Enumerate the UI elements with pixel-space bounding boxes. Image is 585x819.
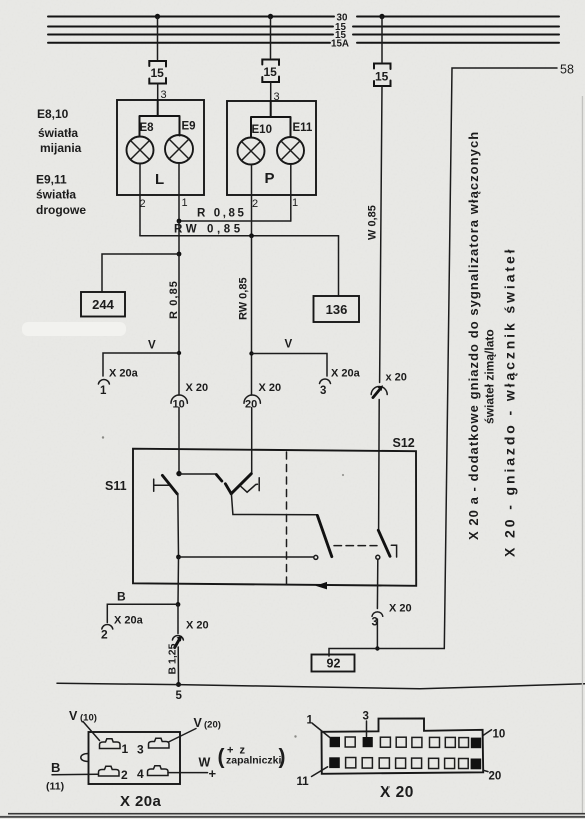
svg-text:2: 2 (121, 768, 128, 782)
headlamp unit box P (227, 101, 316, 195)
X20a terminal pin 4 (148, 766, 169, 776)
connector X20a pin 3 arc (320, 379, 331, 397)
svg-text:V: V (148, 340, 156, 352)
svg-text:E9: E9 (182, 121, 196, 133)
bus line 15A (48, 38, 559, 49)
wire pin3 down to junction (376, 619, 378, 649)
svg-text:RW 0,85: RW 0,85 (174, 224, 244, 236)
svg-text:244: 244 (92, 297, 114, 312)
S12 hook contact (391, 545, 396, 557)
wire RW down to connector X20 (251, 236, 253, 395)
bus line 15 (first) (48, 22, 559, 33)
svg-text:mijania: mijania (40, 141, 82, 155)
pencil speck (342, 474, 344, 476)
svg-text:1: 1 (292, 197, 298, 209)
svg-text:X 20: X 20 (380, 784, 414, 801)
X20 socket 12 (346, 758, 356, 768)
wire to S11 second lever (179, 473, 216, 475)
svg-text:2: 2 (252, 198, 258, 210)
wire B down from junction (177, 557, 180, 604)
svg-text:W 0,85: W 0,85 (367, 205, 379, 240)
svg-text:X 20: X 20 (186, 382, 209, 394)
svg-text:B: B (117, 590, 126, 604)
wire R 0,85 horizontal to E11 pin1 (179, 220, 291, 222)
X20 socket 18 (445, 758, 455, 768)
svg-text:X 20: X 20 (186, 620, 209, 632)
X20 socket 7 (430, 737, 440, 747)
X20 socket 10 (filled) (471, 738, 481, 749)
X20 socket 5 (396, 737, 406, 747)
X20 socket 16 (412, 758, 422, 768)
connector X20a pin 1 arc (98, 379, 109, 397)
wire: lamp E10 pin2 down (251, 165, 253, 236)
junction R wire (177, 219, 182, 224)
mechanical link dashed (334, 545, 377, 547)
X20 pin label 11 (297, 767, 328, 788)
wire branch V to X20a pin3 (252, 354, 328, 377)
svg-text:V: V (285, 339, 293, 351)
wire junction to terminal 58 (377, 648, 444, 650)
label V(20) (169, 716, 221, 742)
svg-text:S12: S12 (393, 436, 415, 450)
wire W resumes to switch S12 (378, 400, 381, 532)
connector drawing X20 body (322, 718, 484, 773)
S11 hook contact (241, 478, 259, 492)
wire branch to X20a pin2 (107, 604, 178, 622)
switch S12 lever (left) (317, 516, 331, 557)
svg-text:V: V (69, 709, 78, 723)
X20 pin label 10 (483, 729, 505, 741)
svg-text:R 0,85: R 0,85 (197, 208, 246, 220)
wire junction to box 92 (329, 649, 377, 657)
svg-text:11: 11 (297, 776, 310, 788)
X20 socket 4 (380, 737, 390, 747)
svg-text:X 20: X 20 (259, 382, 282, 394)
S12 left contact (open circle) (314, 555, 318, 559)
X20 socket 11 (filled) (329, 757, 340, 768)
svg-text:92: 92 (327, 657, 341, 671)
svg-text:20: 20 (489, 771, 502, 783)
connector X20 arc on wire W (371, 385, 387, 397)
wire branch to box 244 (102, 254, 179, 292)
svg-text:E9,11: E9,11 (36, 173, 67, 187)
svg-text:X 20a: X 20a (120, 793, 161, 810)
svg-text:10: 10 (493, 729, 506, 741)
svg-text:15: 15 (151, 66, 165, 80)
wire R from connector X20 into box (178, 408, 180, 474)
svg-text:58: 58 (560, 63, 574, 77)
fuse F1 15A (149, 61, 166, 84)
S11 left fixed contact (154, 479, 169, 491)
switch unit box S11/S12 (133, 449, 416, 586)
S12 right contact (open circle) (376, 555, 380, 559)
svg-text:E11: E11 (293, 122, 313, 134)
internal feed bracket box P (251, 101, 291, 138)
bus line 30 (48, 12, 559, 23)
svg-text:1: 1 (307, 715, 314, 727)
svg-text:15A: 15A (331, 38, 349, 49)
wire W from fuse F3 down (380, 86, 382, 383)
svg-text:3: 3 (137, 743, 144, 757)
svg-text:S11: S11 (105, 479, 127, 493)
svg-text:136: 136 (326, 302, 348, 317)
junction B branch (176, 602, 181, 607)
lamp E8 (127, 122, 155, 164)
junction box 92 branch (375, 646, 379, 650)
bottom line terminal 5 (57, 683, 585, 689)
wire RW from connector X20 into box (251, 408, 253, 474)
svg-text:2: 2 (101, 628, 108, 642)
svg-text:E8: E8 (140, 122, 155, 134)
svg-text:E8,10: E8,10 (37, 107, 69, 121)
svg-text:3: 3 (363, 711, 369, 723)
wire S11 output (231, 494, 317, 515)
svg-text:15: 15 (375, 70, 389, 84)
switch S11 lever (right, dashed) (216, 475, 231, 494)
svg-text:+: + (209, 766, 217, 781)
wire R: lamp E9 pin1 down (178, 163, 180, 221)
svg-text:): ) (279, 746, 286, 769)
svg-text:1: 1 (182, 197, 188, 209)
pencil speck (294, 735, 296, 737)
X20 socket 2 (345, 737, 355, 747)
svg-text:B: B (51, 760, 60, 775)
svg-text:(11): (11) (46, 781, 64, 793)
box 244 (81, 292, 125, 317)
svg-text:X 20a: X 20a (331, 368, 361, 380)
svg-text:(20): (20) (204, 720, 221, 731)
connector drawing X20a body (89, 732, 181, 784)
X20 socket 13 (362, 758, 372, 768)
junction on bus 30 for fuse F3 (379, 14, 384, 19)
fuse F3 15A (374, 64, 391, 87)
wire bus30 to fuse F3 (381, 17, 383, 63)
svg-text:B 1,25: B 1,25 (167, 643, 179, 674)
X20 socket 19 (459, 759, 469, 769)
fuse F2 15A (262, 60, 279, 83)
wire RW: lamp E8 pin2 down (139, 164, 141, 236)
wire B to bottom line (177, 647, 179, 684)
wire branch V to X20a pin1 (103, 353, 179, 376)
svg-text:X 20 a - dodatkowe gniazdo d: X 20 a - dodatkowe gniazdo do sygnalizat… (466, 131, 481, 540)
label W + z zapalniczki (168, 745, 286, 782)
svg-text:15: 15 (264, 65, 278, 79)
scan fold line right (582, 96, 583, 813)
svg-text:światła: światła (36, 188, 76, 202)
left caption E8,10 swiatla mijania (37, 107, 82, 155)
svg-text:świateł zimą/lato: świateł zimą/lato (483, 329, 497, 424)
svg-text:zapalniczki: zapalniczki (226, 755, 282, 767)
wire S12 output down (376, 559, 378, 608)
label B (11) (46, 760, 98, 793)
X20 socket 20 (filled) (471, 759, 482, 770)
wire bus30 to fuse F1 (157, 17, 159, 60)
svg-text:X 20a: X 20a (109, 368, 139, 380)
svg-text:światła: światła (38, 126, 78, 140)
wire R down to connector X20 (178, 254, 180, 395)
terminal 58 wire (444, 63, 574, 649)
svg-text:RW 0,85: RW 0,85 (238, 277, 250, 320)
svg-text:drogowe: drogowe (36, 203, 86, 217)
connector X20 pin 20 arc (244, 395, 260, 411)
svg-text:4: 4 (137, 767, 144, 781)
junction S11 input (176, 471, 181, 476)
junction B wire (176, 555, 181, 560)
switch S12 lever (right) (378, 530, 390, 556)
wire bus30 to fuse F2 (270, 17, 272, 59)
scan edge line lower (0, 816, 585, 818)
pencil speck (388, 786, 390, 788)
junction on bus 30 for fuse F1 (155, 14, 160, 19)
wire fuse F2 to lamp box P pin 3 (270, 82, 272, 101)
junction 244 branch (177, 252, 182, 257)
X20 socket 1 (filled) (330, 737, 340, 747)
svg-text:E10: E10 (252, 124, 272, 136)
internal feed bracket box L (140, 100, 180, 137)
junction on bus 30 for fuse F2 (268, 14, 273, 19)
headlamp unit box L (117, 100, 204, 195)
wire R down to junction 244 branch (178, 221, 180, 254)
svg-text:X 20 - gniazdo - włączni: X 20 - gniazdo - włącznik świateł (502, 247, 518, 557)
X20 socket 14 (379, 758, 389, 768)
X20 pin label 20 (484, 770, 502, 782)
junction RW wire at E10 branch (249, 233, 254, 238)
svg-text:1: 1 (122, 742, 129, 756)
X20 pin label 1 (307, 715, 330, 738)
bus line 15 (second) (48, 30, 559, 41)
pencil speck (102, 436, 104, 438)
wire RW bend into S11 (231, 474, 251, 494)
X20 socket 6 (412, 737, 422, 747)
erased pencil smudge (22, 322, 126, 336)
connector X20 arc on wire B (172, 635, 183, 647)
X20a terminal pin 2 (99, 766, 120, 776)
svg-text:V: V (194, 716, 203, 730)
X20a terminal pin 3 (149, 738, 170, 748)
svg-text:P: P (265, 170, 275, 187)
scan edge line upper (8, 813, 585, 815)
svg-text:X 20: X 20 (389, 603, 412, 615)
svg-text:1: 1 (100, 385, 107, 397)
switch S11 lever (left) (162, 475, 177, 494)
connector X20 pin 3 arc (372, 612, 383, 629)
X20 socket 3 (filled) (363, 737, 373, 747)
wire to S12 left contact (179, 556, 314, 558)
X20a terminal pin 1 (100, 739, 121, 749)
X20 socket 9 (459, 738, 469, 748)
left caption E9,11 swiatla drogowe (36, 173, 86, 218)
X20 pin label 3 (363, 711, 369, 737)
lamp E10 (238, 124, 272, 165)
svg-text:X 20a: X 20a (114, 615, 144, 627)
junction marker on box bottom (316, 582, 328, 590)
connector X20 pin 10 arc (171, 395, 187, 411)
wire: lamp E11 pin1 down (290, 165, 292, 222)
dashed divider (286, 452, 288, 585)
X20 socket 17 (429, 758, 439, 768)
wire fuse F1 to lamp box L pin 3 (157, 84, 159, 101)
svg-text:R 0,85: R 0,85 (168, 280, 180, 319)
wire below S11 lever (177, 494, 180, 558)
box 92 (312, 655, 355, 672)
lamp E9 (165, 121, 196, 164)
wire B to connector X20 (177, 604, 179, 633)
box 136 (314, 296, 360, 322)
X20 socket 15 (396, 758, 406, 768)
svg-text:x 20: x 20 (386, 372, 407, 384)
X20 socket 8 (445, 737, 455, 747)
connector X20a pin 2 arc (101, 624, 113, 641)
svg-text:(: ( (218, 746, 225, 769)
svg-text:5: 5 (176, 690, 183, 702)
wire RW branch down to box 136 (338, 236, 340, 296)
junction on bottom line (176, 682, 181, 687)
svg-text:L: L (155, 171, 164, 188)
X20a left latch hook (81, 754, 89, 762)
wire RW 0,85 horizontal (140, 235, 339, 237)
svg-text:3: 3 (320, 385, 326, 397)
label V(10) (69, 709, 100, 741)
lamp E11 (277, 122, 313, 164)
